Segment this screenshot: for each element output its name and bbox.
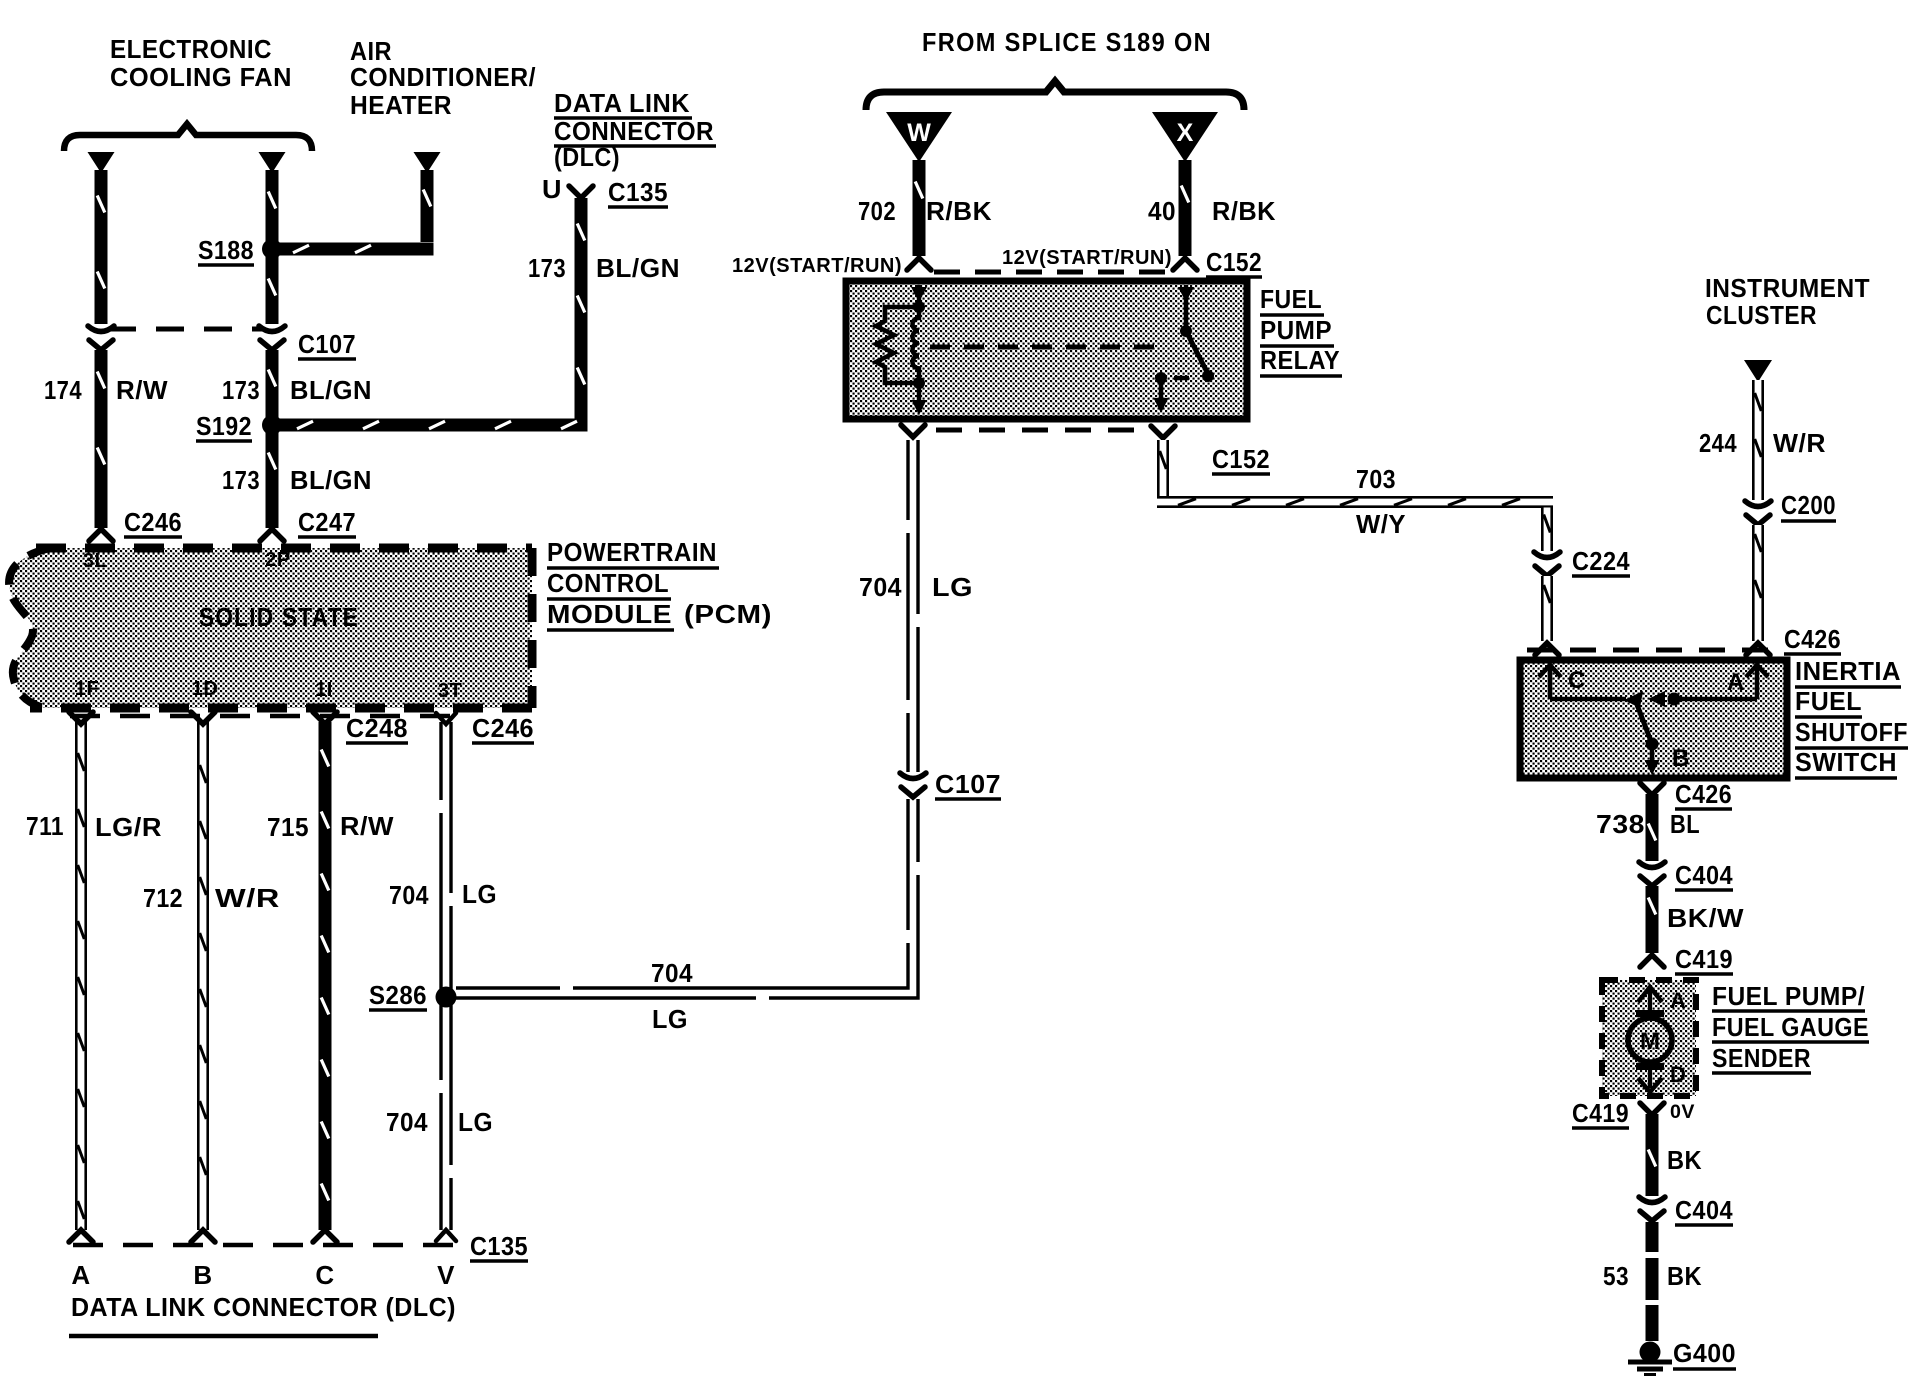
- svg-text:A: A: [1727, 669, 1745, 696]
- inertia switch contact arrow from A: [1648, 691, 1665, 707]
- svg-text:711: 711: [26, 811, 64, 841]
- svg-text:SHUTOFF: SHUTOFF: [1795, 717, 1908, 747]
- wire 173 BL/GN segment S192 to C247: [266, 431, 279, 528]
- wire 711 LG/R: [75, 722, 87, 1230]
- svg-text:A: A: [1670, 988, 1686, 1013]
- svg-text:M: M: [1640, 1028, 1660, 1055]
- wire 53 BK segment 1: [1646, 1222, 1659, 1252]
- wire 715 end flare at DLC: [313, 1230, 337, 1242]
- svg-text:W/R: W/R: [1773, 428, 1826, 458]
- wire 738 start flare below inertia switch: [1640, 783, 1664, 795]
- svg-text:12V(START/RUN): 12V(START/RUN): [732, 255, 902, 277]
- dashed connector line C107: [108, 327, 264, 332]
- svg-text:B: B: [193, 1260, 212, 1290]
- svg-text:LG: LG: [462, 879, 497, 909]
- svg-text:C246: C246: [124, 507, 182, 537]
- wire BK/W end flare at C419: [1640, 955, 1664, 967]
- splice S188 dot: [262, 239, 282, 259]
- connector C404 upper: [1639, 862, 1665, 868]
- svg-text:R/W: R/W: [116, 375, 168, 405]
- svg-text:MODULE: MODULE: [547, 599, 672, 629]
- svg-text:BK: BK: [1667, 1145, 1702, 1175]
- relay coil bottom junction dot: [913, 377, 925, 389]
- wire 704 LG flare at PCM pin 3T: [436, 713, 456, 724]
- svg-text:D: D: [1670, 1062, 1686, 1087]
- inertia switch contact dot A side: [1668, 693, 1681, 706]
- wire 712 flare at PCM: [191, 712, 215, 724]
- svg-text:BK/W: BK/W: [1667, 903, 1744, 933]
- svg-text:C419: C419: [1572, 1098, 1629, 1128]
- svg-text:738: 738: [1596, 809, 1645, 839]
- svg-text:HEATER: HEATER: [350, 90, 452, 120]
- wire 53 BK segment 2: [1646, 1258, 1659, 1300]
- svg-text:C247: C247: [298, 507, 356, 537]
- svg-text:POWERTRAIN: POWERTRAIN: [547, 537, 717, 567]
- powertrain control module PCM box: [9, 548, 532, 708]
- wire 173 BL/GN segment above S188: [266, 170, 279, 249]
- svg-text:LG: LG: [458, 1107, 493, 1137]
- dashed connector line C135 DLC: [73, 1243, 462, 1248]
- svg-text:INSTRUMENT: INSTRUMENT: [1705, 273, 1870, 303]
- inertia switch arm arrowhead: [1624, 691, 1643, 708]
- svg-text:704: 704: [859, 572, 902, 602]
- svg-text:C135: C135: [608, 177, 668, 207]
- svg-text:W/Y: W/Y: [1356, 509, 1406, 539]
- svg-text:BL/GN: BL/GN: [290, 375, 372, 405]
- svg-text:C246: C246: [472, 713, 534, 743]
- air conditioner horizontal wire to S188: [277, 243, 434, 256]
- relay coil top junction dot: [913, 301, 925, 313]
- connector triangle W: [886, 112, 952, 162]
- svg-text:FUEL: FUEL: [1795, 686, 1862, 716]
- svg-text:(PCM): (PCM): [684, 599, 772, 629]
- svg-text:C107: C107: [298, 329, 356, 359]
- connector C247 wire end flare: [260, 529, 284, 541]
- dashed connector line C152 bottom: [936, 428, 1144, 433]
- relay actuation dashed link: [930, 345, 1165, 350]
- svg-text:BL/GN: BL/GN: [596, 253, 680, 283]
- svg-text:FUEL: FUEL: [1260, 284, 1322, 314]
- svg-text:BK: BK: [1667, 1261, 1702, 1291]
- svg-text:B: B: [1672, 745, 1690, 772]
- svg-text:C426: C426: [1784, 624, 1841, 654]
- svg-text:704: 704: [389, 880, 429, 910]
- svg-text:SOLID STATE: SOLID STATE: [199, 602, 359, 632]
- wire 715 flare at PCM: [313, 712, 337, 724]
- inertia switch pin A line: [1755, 664, 1760, 699]
- svg-text:COOLING FAN: COOLING FAN: [110, 62, 292, 92]
- relay resistor zigzag: [876, 307, 919, 383]
- svg-text:173: 173: [222, 465, 260, 495]
- svg-text:703: 703: [1356, 464, 1396, 494]
- svg-text:INERTIA: INERTIA: [1795, 656, 1901, 686]
- inertia switch line from A: [1674, 697, 1757, 702]
- svg-text:1I: 1I: [315, 679, 333, 701]
- wire 738 BL: [1646, 794, 1659, 861]
- svg-text:12V(START/RUN): 12V(START/RUN): [1002, 247, 1172, 269]
- dashed connector line C426: [1527, 648, 1777, 653]
- svg-text:C419: C419: [1675, 944, 1733, 974]
- svg-text:C200: C200: [1781, 490, 1836, 520]
- inertia switch arm: [1636, 702, 1652, 744]
- svg-text:FUEL GAUGE: FUEL GAUGE: [1712, 1012, 1869, 1042]
- wire 703 start flare below relay: [1151, 426, 1175, 438]
- svg-text:LG/R: LG/R: [95, 812, 162, 842]
- svg-text:2P: 2P: [265, 549, 290, 571]
- svg-text:1F: 1F: [75, 678, 99, 700]
- svg-text:SWITCH: SWITCH: [1795, 747, 1897, 777]
- wire 711 flare at PCM: [69, 712, 93, 724]
- svg-text:715: 715: [267, 812, 309, 842]
- wire 712 W/R: [197, 722, 209, 1230]
- svg-text:CLUSTER: CLUSTER: [1706, 300, 1817, 330]
- wire 174 R/W upper segment: [95, 170, 108, 324]
- connector flare at U C135: [569, 186, 593, 198]
- wire 704 LG thin double line vertical: [439, 722, 442, 1230]
- svg-text:DATA LINK: DATA LINK: [554, 88, 690, 118]
- svg-text:W: W: [907, 119, 931, 147]
- svg-text:173: 173: [222, 375, 260, 405]
- svg-text:C152: C152: [1212, 444, 1270, 474]
- wire 712 end flare at DLC: [191, 1230, 215, 1242]
- svg-text:244: 244: [1699, 428, 1737, 458]
- relay switch input line from X: [1184, 285, 1189, 330]
- relay switch pivot dot: [1180, 325, 1192, 337]
- inertia switch pin C line: [1548, 664, 1553, 699]
- svg-text:RELAY: RELAY: [1260, 345, 1340, 375]
- bracket over cooling fan wires: [64, 124, 312, 151]
- fuel pump pin D line with arrow: [1648, 1070, 1652, 1088]
- svg-text:LG: LG: [932, 572, 973, 602]
- fuel pump motor brush top: [1636, 1010, 1664, 1017]
- wire 703 W/Y vertical from relay: [1157, 440, 1169, 497]
- inertia switch contact line from C: [1550, 697, 1626, 702]
- connector C246 wire end flare: [89, 529, 113, 541]
- wire 173 BL/GN U to C135 vertical: [575, 198, 588, 419]
- svg-text:1D: 1D: [192, 678, 219, 700]
- wire 704 start flare below relay: [901, 425, 925, 437]
- svg-text:40: 40: [1148, 196, 1176, 226]
- svg-text:X: X: [1177, 119, 1194, 147]
- svg-text:U: U: [542, 174, 562, 204]
- wire 715 R/W: [319, 722, 332, 1230]
- svg-text:C: C: [315, 1260, 334, 1290]
- relay switch output arrow: [1159, 378, 1164, 400]
- svg-text:3L: 3L: [83, 550, 107, 572]
- inertia fuel shutoff switch box: [1520, 660, 1787, 778]
- splice S192 dot: [262, 415, 282, 435]
- fuel pump motor brush bottom: [1636, 1063, 1664, 1070]
- svg-text:S188: S188: [198, 235, 254, 265]
- relay switch arm: [1186, 331, 1208, 374]
- svg-text:V: V: [437, 1260, 455, 1290]
- fuel pump fuel gauge sender box: [1602, 980, 1696, 1096]
- wire 703 end flare at C426: [1535, 643, 1559, 655]
- connector C107 symbol on wire 174: [88, 326, 114, 332]
- wire 704 end flare at DLC: [436, 1230, 456, 1241]
- splice S286 dot: [436, 987, 457, 1008]
- svg-text:704: 704: [651, 958, 693, 988]
- svg-text:C248: C248: [346, 713, 408, 743]
- dashed connector line C152 top: [934, 270, 1168, 275]
- relay switch output contact dot: [1155, 372, 1167, 384]
- svg-text:(DLC): (DLC): [554, 142, 620, 172]
- horizontal wire S192 to U wire: [277, 419, 588, 432]
- bracket from splice S189: [866, 81, 1244, 110]
- connector C404 lower: [1639, 1197, 1665, 1203]
- relay switch contact dash: [1174, 376, 1189, 381]
- relay coil output arrow to ground pin: [917, 383, 922, 402]
- svg-text:C152: C152: [1206, 247, 1262, 277]
- svg-text:PUMP: PUMP: [1260, 315, 1332, 345]
- svg-text:702: 702: [858, 196, 896, 226]
- wire 244 end flare at C426: [1746, 643, 1770, 655]
- svg-text:R/BK: R/BK: [1212, 196, 1276, 226]
- svg-text:173: 173: [528, 253, 566, 283]
- svg-text:BL: BL: [1670, 809, 1700, 839]
- wire 703 W/Y horizontal run: [1157, 496, 1553, 508]
- relay coil winding: [913, 307, 920, 383]
- svg-text:W/R: W/R: [215, 883, 280, 913]
- wire 40 end flare at C152: [1173, 258, 1197, 270]
- fuel pump pin A line with arrow: [1648, 988, 1652, 1010]
- svg-text:C224: C224: [1572, 546, 1630, 576]
- svg-text:C: C: [1568, 667, 1586, 694]
- wire 244 W/R upper: [1752, 380, 1764, 500]
- wire 711 end flare at DLC: [69, 1230, 93, 1242]
- wire 174 R/W lower segment: [95, 350, 108, 528]
- svg-text:0V: 0V: [1670, 1102, 1695, 1123]
- inertia switch pivot dot B: [1646, 738, 1659, 751]
- ground G400: [1640, 1342, 1661, 1363]
- svg-text:ELECTRONIC: ELECTRONIC: [110, 34, 272, 64]
- connector arrow to cooling fan wire 174: [88, 152, 115, 173]
- svg-text:C404: C404: [1675, 1195, 1733, 1225]
- relay switch arm end dot: [1202, 370, 1214, 382]
- wire 703 W/Y vertical to C224: [1541, 508, 1553, 552]
- connector C200: [1745, 501, 1771, 507]
- svg-text:53: 53: [1603, 1261, 1629, 1291]
- wire BK start flare below fuel pump: [1640, 1103, 1664, 1115]
- wire 244 W/R lower: [1752, 525, 1764, 641]
- svg-text:C404: C404: [1675, 860, 1733, 890]
- connector arrow to cooling fan wire 173: [259, 152, 286, 173]
- relay coil input pin arrow: [917, 285, 922, 305]
- svg-text:S286: S286: [369, 980, 427, 1010]
- svg-text:BL/GN: BL/GN: [290, 465, 372, 495]
- svg-text:G400: G400: [1673, 1338, 1736, 1368]
- wire 53 BK segment 3: [1646, 1305, 1659, 1341]
- svg-text:C135: C135: [470, 1231, 528, 1261]
- svg-text:S192: S192: [196, 411, 252, 441]
- wire 173 BL/GN segment C107 to S192: [266, 350, 279, 425]
- svg-text:C426: C426: [1675, 779, 1732, 809]
- svg-text:712: 712: [143, 883, 183, 913]
- connector arrow instrument cluster: [1744, 360, 1772, 382]
- svg-text:FUEL PUMP/: FUEL PUMP/: [1712, 981, 1865, 1011]
- wire BK/W: [1646, 886, 1659, 953]
- wire 703 below C224: [1541, 576, 1553, 641]
- svg-text:R/W: R/W: [340, 811, 394, 841]
- wire 702 end flare at C152: [907, 258, 931, 270]
- svg-text:R/BK: R/BK: [926, 196, 992, 226]
- fuel pump relay box: [846, 281, 1247, 419]
- connector C107 on 704 wire: [898, 772, 928, 799]
- horizontal 704 LG wire from S286: [456, 440, 918, 998]
- air conditioner vertical wire: [421, 170, 434, 242]
- svg-text:A: A: [71, 1260, 90, 1290]
- wire BK: [1646, 1114, 1659, 1196]
- svg-text:704: 704: [386, 1107, 428, 1137]
- fuel pump motor circle M: [1628, 1018, 1672, 1062]
- wire 40 R/BK: [1179, 160, 1192, 256]
- dashed connector line C248 C246 below PCM: [70, 714, 458, 719]
- inertia switch output line B: [1650, 744, 1655, 762]
- svg-text:C107: C107: [935, 769, 1001, 799]
- connector C224: [1534, 552, 1560, 558]
- wire 173 BL/GN segment S188 to C107: [266, 255, 279, 324]
- connector triangle X: [1152, 112, 1218, 162]
- svg-text:3T: 3T: [438, 680, 462, 702]
- svg-text:174: 174: [44, 375, 82, 405]
- wire 702 R/BK: [913, 160, 926, 256]
- svg-text:LG: LG: [652, 1004, 688, 1034]
- connector arrow to air conditioner wire: [414, 152, 441, 173]
- svg-text:CONDITIONER/: CONDITIONER/: [350, 62, 536, 92]
- svg-text:FROM SPLICE S189 ON: FROM SPLICE S189 ON: [922, 27, 1212, 57]
- svg-text:CONTROL: CONTROL: [547, 568, 669, 598]
- svg-text:DATA LINK CONNECTOR (DLC): DATA LINK CONNECTOR (DLC): [71, 1292, 456, 1322]
- connector C107 symbol on wire 173: [259, 326, 285, 332]
- svg-text:SENDER: SENDER: [1712, 1043, 1811, 1073]
